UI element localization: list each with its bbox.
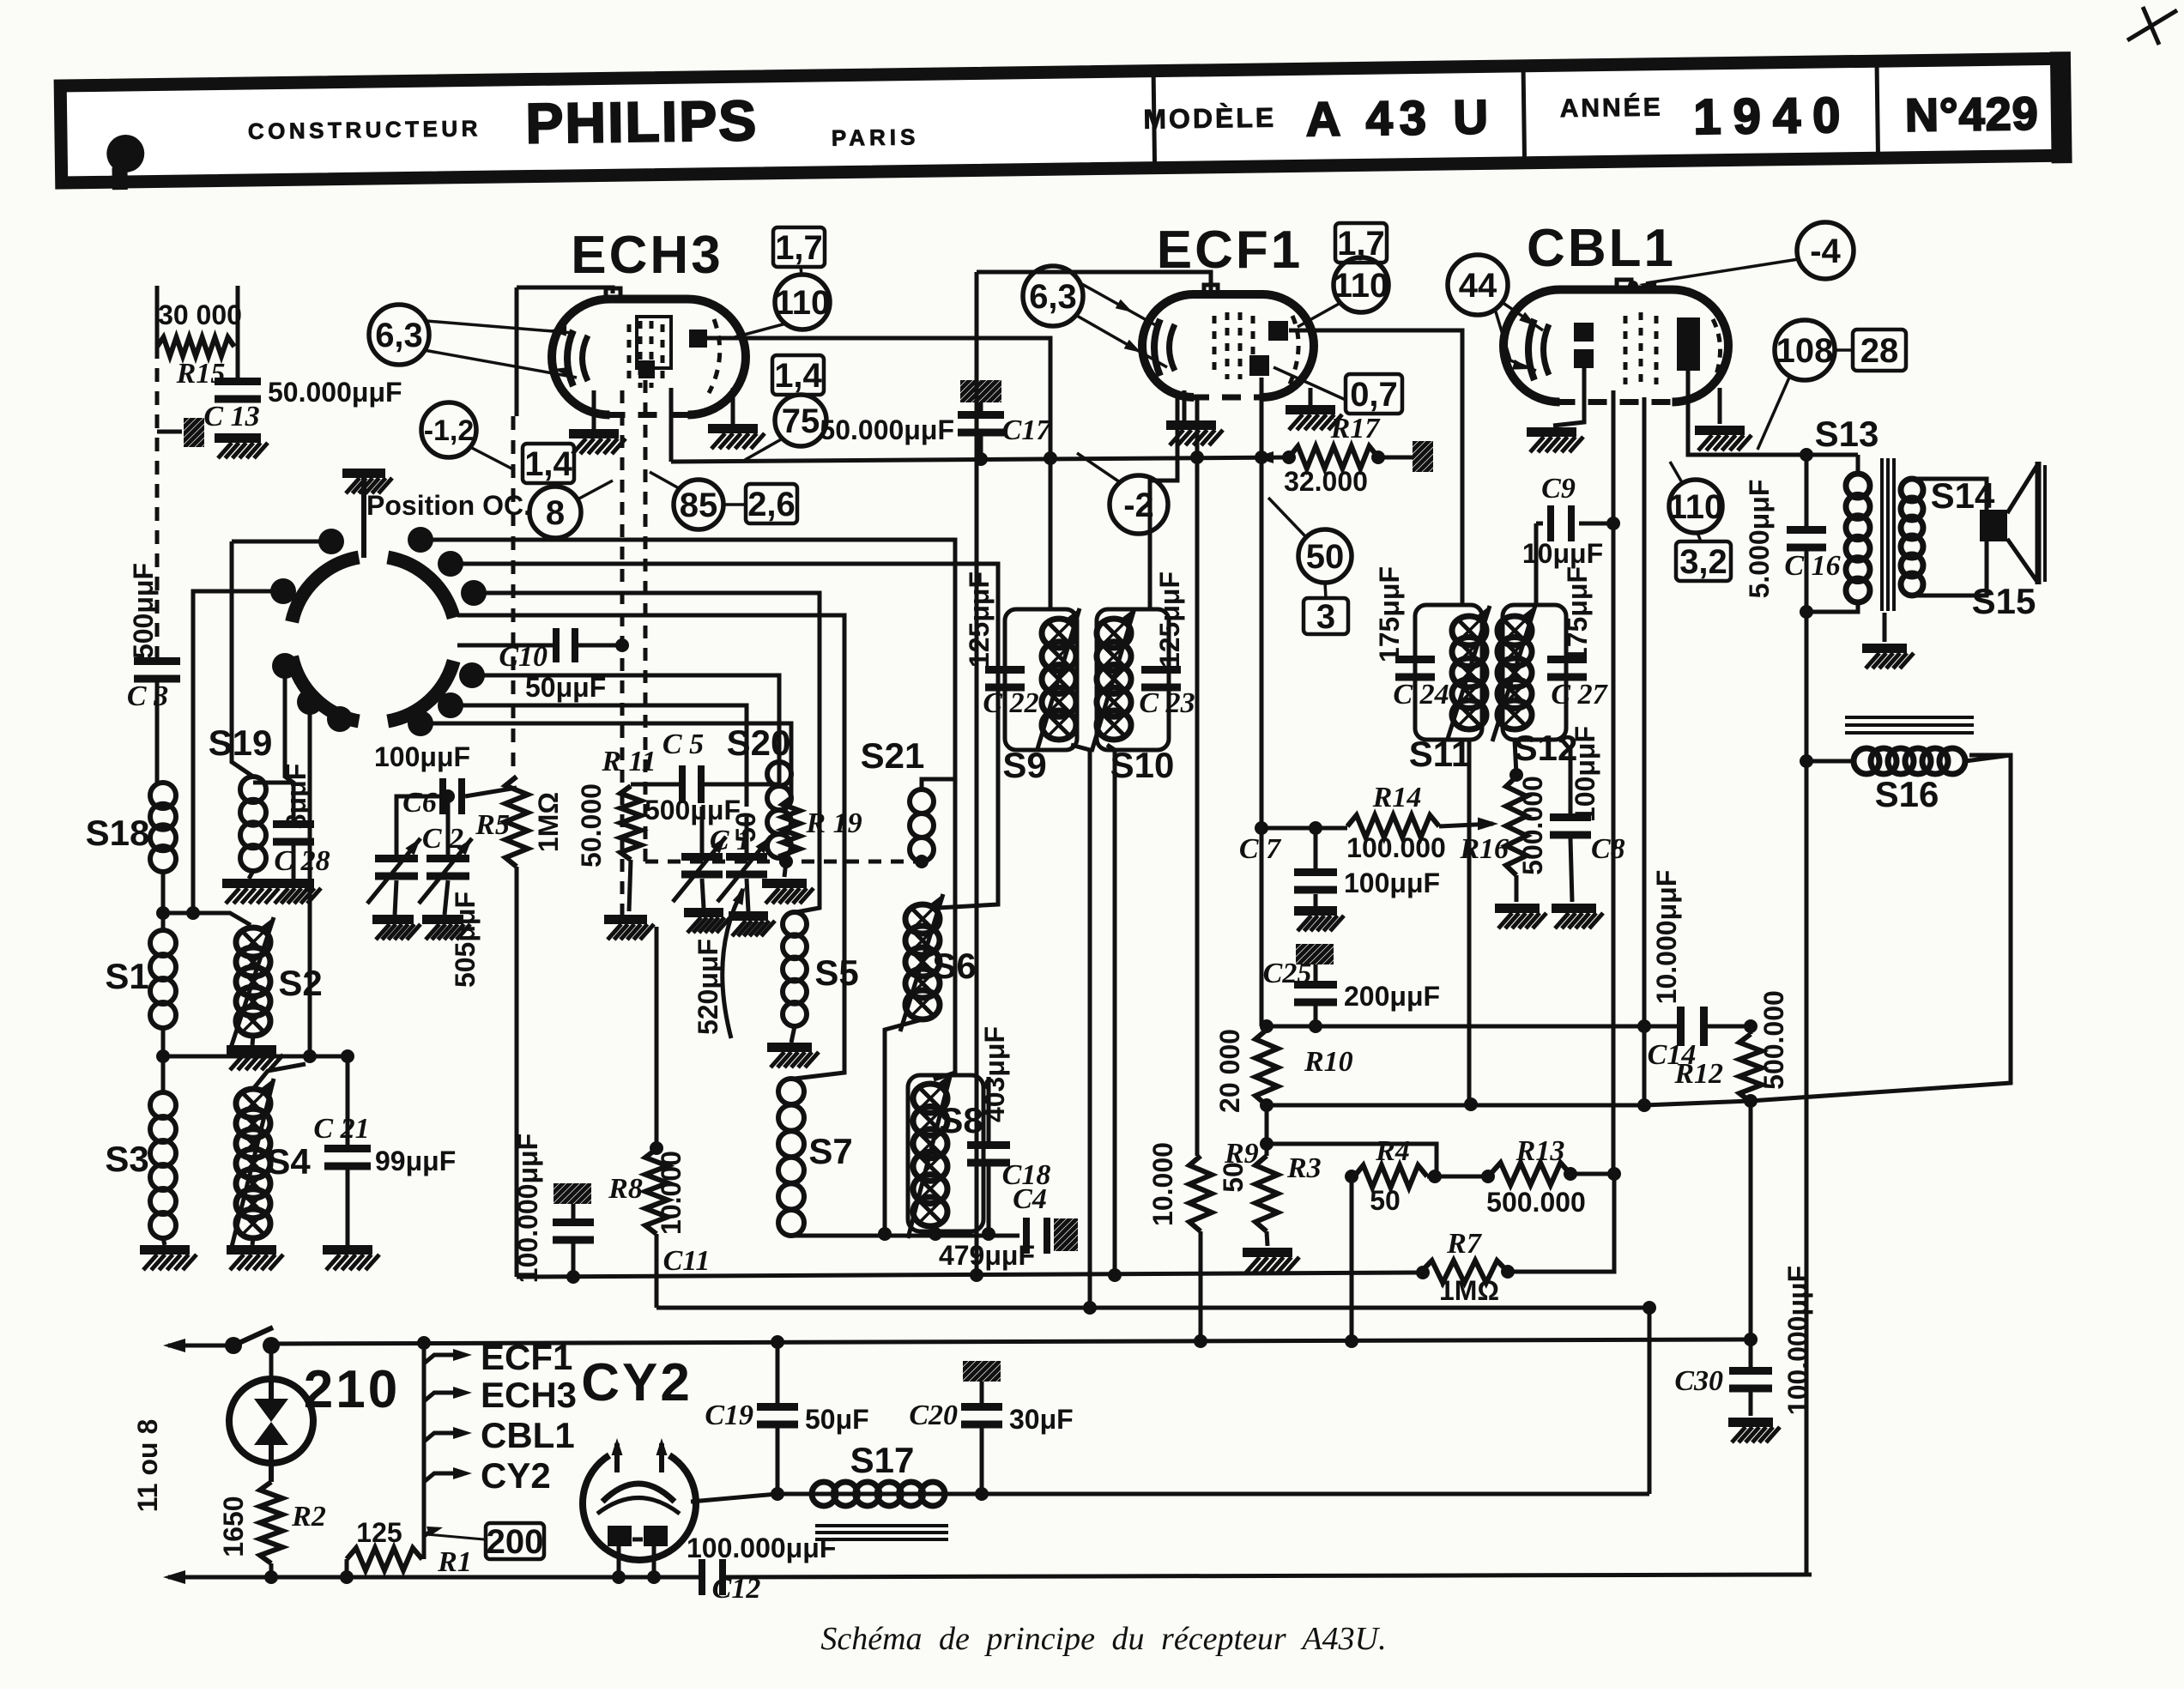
CY2 plate square b	[644, 1526, 668, 1546]
node R8 top	[650, 1141, 663, 1155]
svg-text:3,2: 3,2	[1679, 543, 1727, 581]
svg-text:110: 110	[775, 284, 831, 322]
node x1224 on bus	[1044, 451, 1057, 465]
node R3 link	[1260, 1137, 1273, 1151]
svg-text:100.000μμF: 100.000μμF	[512, 1134, 543, 1283]
ECH3 top cap	[606, 288, 620, 300]
screen bus	[671, 457, 1289, 462]
wire C10 to grid line	[578, 644, 622, 648]
svg-text:125: 125	[356, 1517, 402, 1548]
audio vertical + C30	[1749, 1101, 1753, 1371]
title divider 1	[1153, 75, 1154, 164]
node grid drop	[1607, 1167, 1621, 1181]
svg-text:175μμF: 175μμF	[1562, 566, 1593, 662]
ECF1 cathode lead long	[1195, 397, 1200, 1156]
ground under grid lead	[604, 915, 647, 924]
resistor R3	[1255, 1156, 1278, 1231]
node R1 rail	[340, 1570, 354, 1584]
heater arrow 200	[424, 1529, 434, 1536]
capacitor C19	[757, 1403, 798, 1411]
link 85-2,6	[723, 503, 745, 506]
tube CY2	[583, 1455, 696, 1560]
pointer 50	[1268, 498, 1306, 537]
node C25 bus	[1309, 1019, 1322, 1033]
CY2 output lead	[691, 1494, 777, 1502]
ECH3 inner box	[637, 317, 671, 368]
coil S21	[910, 789, 934, 813]
ground under R3	[1243, 1248, 1292, 1257]
capacitor C4	[1023, 1218, 1030, 1254]
R14 arrow to R16	[1439, 824, 1493, 826]
node C10 grid	[615, 638, 629, 652]
coil S19	[240, 777, 266, 802]
svg-text:N°429: N°429	[1905, 88, 2040, 142]
node drop1	[303, 1049, 317, 1063]
rotary switch ring	[388, 558, 454, 618]
svg-text:8μμF: 8μμF	[281, 764, 312, 830]
switch wiper stem	[361, 478, 366, 558]
svg-text:C 27: C 27	[1551, 679, 1608, 710]
node mid b	[1481, 1170, 1495, 1183]
ground under C7	[1294, 906, 1337, 916]
wire switch right 1	[420, 540, 955, 779]
svg-text:C19: C19	[705, 1400, 753, 1431]
wire C5-S20	[699, 764, 779, 784]
CBL1 grid column 2	[1639, 312, 1643, 386]
svg-text:100.000μμF: 100.000μμF	[687, 1533, 836, 1563]
ground under S3	[140, 1245, 190, 1255]
ECF1 inner dashed arc	[1289, 316, 1298, 386]
svg-text:175μμF: 175μμF	[1374, 566, 1405, 662]
capacitor C23	[1141, 666, 1181, 674]
rail end node	[1744, 1333, 1757, 1346]
pointer 85	[650, 472, 679, 488]
tube CBL1 envelope	[1503, 290, 1728, 402]
resistor R19	[783, 798, 800, 862]
svg-text:S9: S9	[1002, 745, 1046, 785]
svg-text:PARIS: PARIS	[832, 124, 920, 150]
wire R4 drop	[1350, 1176, 1354, 1341]
wire R19 gnd	[784, 862, 786, 877]
S17 core lines	[815, 1524, 948, 1527]
svg-text:10.000μμF: 10.000μμF	[1651, 870, 1682, 1005]
svg-text:100μμF: 100μμF	[374, 741, 470, 772]
CBL1 grid column 3	[1655, 316, 1659, 384]
svg-text:100μμF: 100μμF	[1570, 726, 1600, 822]
capacitor C10	[553, 628, 560, 662]
svg-text:R2: R2	[291, 1501, 326, 1533]
svg-text:C 5: C 5	[662, 729, 704, 760]
ground under C13	[215, 433, 261, 443]
svg-text:C 3: C 3	[127, 680, 168, 712]
wire S11 bottom drop	[1467, 740, 1472, 1104]
wire to S2 top	[163, 913, 251, 925]
svg-text:S20: S20	[727, 723, 791, 763]
node x1395 bus	[1190, 450, 1204, 464]
svg-text:500.000: 500.000	[1486, 1187, 1586, 1218]
svg-text:108: 108	[1776, 332, 1834, 370]
svg-text:1,7: 1,7	[1337, 225, 1385, 263]
R5 lower lead	[515, 867, 519, 1277]
switch contact b	[263, 1337, 280, 1354]
main rail	[271, 1339, 1751, 1344]
resistor R7	[1421, 1261, 1508, 1283]
node grid/screen bus	[1255, 450, 1268, 464]
wire S4 ground	[252, 1238, 253, 1245]
capacitor C12	[699, 1559, 705, 1595]
R14 line	[1261, 826, 1347, 831]
svg-text:ECF1: ECF1	[1157, 221, 1303, 280]
wire C2a gnd	[395, 880, 396, 915]
rotary switch contacts	[318, 529, 344, 554]
wire S2 ground	[252, 1036, 253, 1045]
wire C28 ground	[292, 844, 296, 879]
svg-text:30μF: 30μF	[1009, 1404, 1074, 1435]
wire C1b gnd	[747, 879, 748, 911]
bottom rail right	[723, 1575, 1812, 1577]
CBL1 inner dashed arc	[1711, 319, 1721, 388]
pointer -2	[1077, 453, 1120, 482]
svg-text:C25: C25	[1263, 958, 1312, 989]
svg-text:C30: C30	[1674, 1365, 1723, 1397]
R17 left arrow	[1255, 451, 1273, 463]
link 108-28	[1835, 348, 1853, 352]
box 0,7	[1346, 374, 1402, 414]
title divider 3	[1877, 64, 1878, 154]
svg-text:10μμF: 10μμF	[1522, 538, 1603, 569]
svg-text:C6: C6	[402, 787, 437, 819]
node S21 bottom	[915, 855, 929, 868]
circle 110 ECH3	[775, 275, 830, 330]
wire S5 gnd	[791, 1026, 795, 1043]
wire switch right 2	[451, 564, 998, 908]
circle 8	[529, 487, 581, 538]
svg-text:30 000: 30 000	[158, 299, 242, 330]
svg-text:C17: C17	[1002, 414, 1053, 446]
coil S14 secondary	[1901, 479, 1923, 501]
resistor R1	[347, 1548, 422, 1570]
svg-text:R16: R16	[1459, 833, 1509, 865]
svg-text:Position OC.: Position OC.	[366, 490, 531, 521]
coil S7	[778, 1079, 804, 1104]
circle 85	[674, 480, 723, 529]
resistor R13	[1491, 1163, 1570, 1185]
link 110-3,2	[1697, 533, 1701, 541]
speaker cone	[2007, 465, 2037, 513]
coil S5	[783, 912, 807, 936]
capacitor C22	[985, 666, 1025, 674]
node S11 drop on bus	[1464, 1097, 1478, 1111]
ground under R16	[1495, 904, 1540, 913]
svg-text:C20: C20	[909, 1400, 958, 1431]
bus y1196	[1261, 1025, 1682, 1029]
bus y1288	[1267, 755, 2011, 1105]
capacitor C6	[439, 778, 446, 814]
svg-text:1,7: 1,7	[775, 229, 823, 267]
CBL1 top cap	[1617, 280, 1631, 292]
svg-text:C 28: C 28	[274, 845, 330, 877]
wire switch right 5	[472, 675, 779, 762]
wire switch drop 1	[308, 702, 312, 1056]
svg-text:6,3: 6,3	[1029, 278, 1077, 316]
svg-text:CY2: CY2	[481, 1455, 551, 1496]
pointer -1,2	[470, 447, 515, 470]
svg-text:5.000μμF: 5.000μμF	[1744, 480, 1775, 599]
ECF1 top cap	[1204, 285, 1218, 296]
ECH3 plate line	[706, 338, 1050, 611]
heater taps	[424, 1355, 463, 1363]
ground under C1b	[729, 911, 768, 921]
title block frame	[60, 58, 2060, 183]
ECF1 plate square	[1268, 321, 1288, 341]
node x1138 bus	[970, 1268, 983, 1282]
ECH3 osc grid dashed lead	[644, 380, 648, 862]
svg-text:C 2: C 2	[422, 823, 463, 855]
svg-text:3: 3	[1316, 598, 1335, 636]
svg-text:505μμF: 505μμF	[450, 892, 481, 988]
ECH3 cathode lead + ground	[592, 390, 596, 429]
svg-text:ECF1: ECF1	[481, 1337, 572, 1377]
ECH3 grid column 3	[650, 321, 654, 388]
svg-text:S6: S6	[932, 946, 976, 986]
wire S19 top	[232, 541, 253, 777]
svg-text:S16: S16	[1875, 774, 1939, 814]
svg-text:50.000μμF: 50.000μμF	[820, 414, 954, 445]
node R19 bottom	[779, 855, 793, 868]
variable capacitor C2a	[375, 855, 418, 862]
wire S9 bottom drop	[1071, 745, 1090, 1308]
wire C21 ground	[346, 1170, 350, 1245]
node R4 left	[1345, 1170, 1358, 1183]
pointer 110 CBL1	[1670, 462, 1683, 484]
box 1,4 left	[523, 444, 574, 483]
CY2 cath lead b	[652, 1546, 656, 1577]
node C11 bus	[566, 1270, 580, 1284]
node R7 left	[1416, 1266, 1430, 1279]
box 28	[1853, 330, 1906, 371]
wire R4-R13	[1427, 1175, 1491, 1179]
coil S20	[767, 762, 791, 786]
node CY2 cath b	[647, 1570, 661, 1584]
svg-text:CBL1: CBL1	[1527, 219, 1676, 278]
node mid a	[1428, 1170, 1442, 1183]
ECF1 right lead + ground	[1309, 388, 1313, 405]
svg-text:-2: -2	[1123, 487, 1154, 524]
ECF1 grid column 4	[1251, 316, 1255, 378]
svg-text:S13: S13	[1815, 414, 1879, 454]
box 1,7 ECF1	[1335, 223, 1387, 263]
tunable coil S8	[913, 1084, 947, 1113]
ECH3 screen lead	[669, 388, 674, 462]
node R9 rail	[1194, 1334, 1207, 1348]
svg-text:6,3: 6,3	[375, 317, 423, 354]
wire R8 top	[655, 927, 659, 1149]
variable capacitor C1b	[726, 853, 767, 861]
svg-text:10.000: 10.000	[656, 1151, 687, 1235]
wire switch left 1	[232, 540, 331, 544]
capacitor C17	[958, 411, 1004, 419]
capacitor C3	[134, 657, 180, 665]
node x1299 bus	[1108, 1268, 1122, 1282]
svg-text:CY2: CY2	[581, 1353, 693, 1412]
circle 108	[1775, 320, 1835, 380]
CY2 plate square a	[608, 1526, 632, 1546]
svg-text:CBL1: CBL1	[481, 1415, 575, 1455]
CBL1 cathode	[1528, 319, 1534, 380]
ground under S2	[227, 1045, 276, 1055]
capacitor C8	[1550, 813, 1591, 821]
wire C2b top	[446, 796, 451, 858]
svg-text:-4: -4	[1810, 233, 1841, 270]
wire C6 to R5	[465, 788, 517, 796]
svg-text:100.000μμF: 100.000μμF	[1782, 1266, 1813, 1415]
tunable coil S6	[905, 904, 940, 934]
S16 core lines	[1845, 716, 1974, 719]
svg-text:50.000: 50.000	[576, 783, 607, 868]
B+ vertical	[1805, 612, 1809, 1575]
wire S19 ground	[249, 871, 253, 879]
svg-text:125μμF: 125μμF	[964, 571, 995, 668]
wire to chassis pad	[157, 430, 182, 434]
svg-text:1650: 1650	[218, 1496, 249, 1557]
IF1 box S9	[1005, 609, 1077, 750]
ground under S13	[1862, 644, 1907, 653]
svg-text:R17: R17	[1330, 413, 1382, 444]
svg-text:32.000: 32.000	[1284, 466, 1368, 497]
svg-text:210: 210	[304, 1360, 400, 1419]
wire S13 bottom	[1806, 602, 1858, 612]
box 2,6	[746, 484, 797, 523]
ECH3 inner dashed arc	[709, 319, 720, 393]
svg-text:1MΩ: 1MΩ	[1439, 1275, 1499, 1306]
IF2 box S11	[1415, 605, 1482, 740]
wire C7 gnd	[1314, 894, 1318, 906]
svg-text:2,6: 2,6	[747, 486, 796, 523]
osc line	[631, 783, 684, 787]
resistor R10	[1255, 1030, 1278, 1105]
node C19 bplus	[771, 1487, 784, 1501]
ECF1 plate line	[1289, 330, 1462, 605]
wire C2b gnd	[445, 880, 448, 915]
tunable coil S9	[1042, 619, 1076, 648]
tunable coil S2	[236, 928, 270, 957]
CY2 minus mark	[632, 1538, 643, 1542]
resistor R15	[157, 337, 234, 356]
wire R16 gnd	[1515, 875, 1519, 902]
resistor R16 potentiometer	[1506, 777, 1527, 875]
wire R3 gnd	[1267, 1231, 1267, 1246]
svg-text:R7: R7	[1446, 1228, 1483, 1260]
coil S18	[150, 783, 176, 808]
corner mark	[2127, 7, 2177, 45]
resistor R9	[1189, 1156, 1212, 1231]
svg-text:ANNÉE: ANNÉE	[1559, 93, 1662, 124]
wire R11 gnd	[629, 860, 631, 911]
node cathode drop on bus	[1637, 1098, 1651, 1112]
svg-text:S5: S5	[814, 952, 858, 993]
svg-text:1,4: 1,4	[524, 445, 572, 483]
ECF1 cathode lead + ground	[1183, 390, 1187, 420]
pointer 110 ECH3	[735, 323, 786, 337]
pointer 8	[578, 481, 613, 499]
ground under C1a	[684, 908, 723, 917]
capacitor C21	[324, 1145, 371, 1152]
svg-text:125μμF: 125μμF	[1154, 571, 1185, 668]
svg-text:C9: C9	[1541, 473, 1576, 505]
svg-text:R1: R1	[437, 1546, 472, 1578]
pointer -4	[1646, 259, 1799, 283]
osc dashed row	[645, 860, 922, 864]
wire switch right 7	[420, 723, 791, 798]
svg-text:A 43 U: A 43 U	[1305, 89, 1495, 146]
svg-text:S4: S4	[266, 1141, 311, 1182]
svg-text:C4: C4	[1013, 1183, 1047, 1215]
box 200	[486, 1523, 544, 1559]
CY2 pin a	[614, 1443, 620, 1472]
wire C7	[1314, 828, 1318, 872]
wire switch right 4	[457, 615, 844, 1079]
circle 6,3 ECF1	[1023, 266, 1083, 326]
IF1 box S10	[1097, 609, 1169, 750]
ground under S19	[222, 879, 272, 888]
svg-text:C 7: C 7	[1239, 833, 1282, 865]
svg-text:S2: S2	[278, 963, 322, 1003]
node C2b	[441, 789, 455, 803]
node C18 bus	[982, 1227, 995, 1241]
resistor R5	[505, 777, 528, 867]
svg-text:C11: C11	[663, 1245, 711, 1277]
node R4 rail	[1345, 1334, 1358, 1348]
pointer 0,7	[1273, 367, 1346, 400]
ECH3 grid dashed lead 1	[620, 390, 625, 915]
variable capacitor C1a	[681, 853, 723, 861]
title block hole mark	[106, 135, 145, 173]
coil S13 primary	[1846, 474, 1870, 498]
node C17	[974, 452, 988, 466]
pointer 6,3 d	[1077, 316, 1167, 367]
wire R2 bottom	[269, 1563, 274, 1577]
tube ECH3 envelope	[552, 299, 746, 415]
resistor R2	[260, 1482, 282, 1563]
wire R12 top	[1749, 1026, 1753, 1034]
ECH3 stage left rail	[515, 287, 519, 416]
ground under C28	[271, 879, 314, 888]
node C9 grid	[1606, 517, 1620, 530]
wire C14-R12	[1703, 1025, 1751, 1029]
svg-text:S3: S3	[105, 1139, 148, 1179]
capacitor C24	[1395, 656, 1435, 663]
wire C9 left	[1536, 522, 1543, 526]
ECF1 grid column 1	[1213, 316, 1217, 378]
svg-text:R4: R4	[1375, 1135, 1410, 1167]
circle 110 CBL1	[1669, 480, 1722, 533]
pointer 75	[745, 438, 783, 460]
svg-text:403μμF: 403μμF	[979, 1026, 1010, 1122]
svg-text:C 1: C 1	[710, 825, 751, 856]
wire switch left 2	[193, 591, 283, 913]
circle -2	[1110, 475, 1168, 534]
wire S1-S3	[161, 1028, 166, 1092]
ground under R19	[762, 879, 807, 888]
svg-text:R5: R5	[475, 809, 510, 841]
ground under C8	[1552, 904, 1596, 913]
svg-text:MODÈLE: MODÈLE	[1143, 102, 1276, 135]
title divider 2	[1523, 70, 1524, 159]
wire C3 to S18	[155, 682, 160, 783]
svg-text:R14: R14	[1372, 782, 1422, 813]
svg-text:200: 200	[487, 1523, 544, 1561]
svg-text:110: 110	[1334, 267, 1389, 305]
